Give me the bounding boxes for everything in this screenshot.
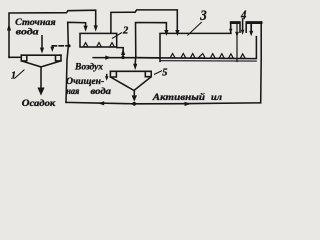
svg-text:2: 2: [122, 26, 129, 37]
arrowhead into box2 left: [84, 26, 88, 32]
label slash 2: [113, 33, 122, 38]
wire air stub up into box 2: [117, 48, 124, 58]
arrowhead tank4 drop middle: [241, 30, 245, 35]
arrowhead bottom line left 1: [98, 101, 105, 105]
svg-text:3: 3: [199, 8, 207, 24]
label slash 3: [188, 22, 202, 35]
tank 5 secondary settler: [110, 70, 151, 72]
svg-text:Осадок: Осадок: [22, 98, 57, 109]
tank 1 primary settler: [21, 54, 61, 56]
box 3 aerotank top and left: [160, 33, 231, 61]
box 3 aeration floor lower line: [161, 60, 257, 62]
hook baffle B of tank 4: [246, 22, 261, 32]
svg-text:1: 1: [11, 71, 16, 82]
arrowhead into tank5: [133, 64, 137, 70]
junction dot dashed line: [67, 44, 70, 47]
junction dot bottom line: [132, 102, 136, 106]
wire inlet left vertical with top line A: [9, 10, 96, 57]
drop pipe into tank 4 middle from label 4: [242, 19, 244, 31]
hook bar B fill: [246, 21, 263, 24]
arrowhead into box2 right: [94, 25, 98, 31]
wire top line B from box2 to box3: [111, 10, 177, 33]
svg-text:Воздух: Воздух: [74, 62, 103, 73]
svg-text:Активный: Активный: [152, 92, 205, 103]
box 2 preaerator: [80, 33, 117, 47]
label slash 1: [15, 70, 24, 78]
arrowhead air up into box2: [121, 49, 125, 55]
arrowhead tank1 sludge: [37, 88, 44, 96]
label slash 5: [155, 71, 162, 74]
wire bottom return line with right riser: [66, 22, 261, 104]
arrowhead up on inlet: [7, 24, 11, 31]
arrowhead tank5 weir mini: [105, 76, 108, 81]
aeration triangles box 3: [170, 54, 175, 58]
baffle wall tank 4: [236, 25, 238, 62]
svg-text:4: 4: [240, 8, 246, 22]
wire air line horizontal: [93, 57, 160, 59]
arrowhead tank4 baffle wall: [235, 32, 239, 37]
arrowhead bottom line right: [185, 102, 192, 106]
background paper: [0, 0, 275, 115]
hook bar A fill: [230, 21, 241, 24]
svg-text:вода: вода: [91, 86, 112, 96]
wire purified water riser up to box2 feed: [66, 22, 86, 102]
junction dot air line: [121, 56, 124, 59]
svg-text:вода: вода: [16, 27, 39, 38]
drop pipe into tank 4 right: [250, 25, 252, 32]
arrowhead into box3 left: [164, 30, 168, 36]
wire tank1 sludge outlet: [40, 67, 42, 89]
wire dashed recycle line to tank 1: [52, 45, 69, 47]
arrowhead air right: [105, 56, 111, 60]
wire tank5 outlet down to bottom line: [133, 91, 135, 98]
svg-text:5: 5: [162, 68, 167, 79]
wire drop into tank 5: [134, 58, 136, 65]
hook baffle A of tank 4: [231, 22, 240, 33]
arrowhead tank4 drop right: [249, 31, 253, 36]
wire inlet horizontal into tank 1: [9, 56, 21, 58]
arrowhead hookA left leg: [229, 29, 232, 34]
arrowhead tank5 outlet to line: [132, 95, 137, 101]
arrowhead dashed recycle into tank1: [50, 47, 54, 52]
arrowhead sewage into tank1: [40, 48, 44, 54]
wire line C riser from air junction up and into box3: [136, 23, 167, 58]
svg-text:ил: ил: [211, 93, 222, 103]
aeration triangles box 2: [83, 43, 88, 47]
svg-text:Очищен-: Очищен-: [66, 76, 104, 86]
box 3 bottom edge: [136, 37, 256, 59]
svg-text:ная: ная: [66, 86, 80, 96]
arrowhead into box3 right: [175, 30, 179, 36]
wire sewage label arrow shaft into tank 1: [41, 36, 43, 50]
tank 5 weir mini outlet arrow: [106, 75, 108, 78]
